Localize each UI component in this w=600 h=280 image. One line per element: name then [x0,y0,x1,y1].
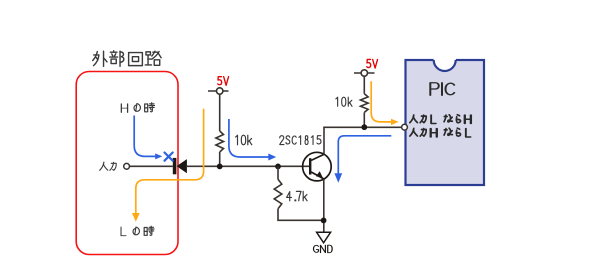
wire: 5V to resistor R3 [363,76,365,94]
ground symbol [317,232,331,243]
diode D1 anode triangle [177,159,187,173]
junction: base node / R2 [275,164,281,170]
resistor R2 4.7k [274,179,282,208]
transistor Q1 collector stroke [311,154,324,160]
enclosure box: external circuit boundary [76,72,178,255]
transistor Q1 emitter stroke [311,172,324,179]
IC U1 PIC package body [406,60,485,185]
label 10k (R1) [236,135,238,145]
flow arrow (blue, into base) [229,119,269,157]
label 外部回路 (title) [93,51,161,66]
label Hの時 [121,103,154,113]
wire: collector node to PIC pin [323,126,401,128]
label 5V (right) [367,59,371,67]
wire: emitter down to ground [323,179,325,232]
resistor R1 10k base pull-up [216,131,224,152]
flow arrow (orange, into PIC) [371,81,391,122]
label 入力 (input) [100,162,117,170]
flow arrow (blue, PIC output sense) [338,136,391,174]
wire: R3 to collector node [363,112,365,127]
wire: collector up [323,127,325,154]
label 2SC1815 (Q1 part number) [280,136,284,145]
label Lの時 [121,226,154,236]
power terminal 5V (left) [208,90,229,92]
wire: R2 to emitter rail [278,209,324,221]
flow arrow (orange, L case) [136,109,204,214]
power terminal 5V (right) [354,72,375,74]
IC U1 pin-1 notch [434,58,456,62]
label GND [313,245,318,252]
transistor Q1 2SC1815 body [303,152,332,181]
transistor Q1 base bar [309,158,311,174]
blocked mark X (blue) [165,153,173,161]
label 10k (R3) [336,97,338,106]
resistor R3 10k collector pull-up [360,94,368,113]
junction: R1 / input wire [217,164,223,170]
wire: node to resistor R2 [277,166,279,179]
junction: emitter / R2 rail [321,218,327,224]
wire: diode to transistor base [187,165,310,167]
wire: R1 to input node [219,152,221,166]
label PIC (U1) [430,83,439,95]
input terminal circle [124,163,130,169]
transistor Q1 emitter arrowhead [316,171,323,178]
junction: collector node [361,124,367,130]
wire: 5V to resistor R1 [219,94,221,131]
flow arrow (blue, H case) [134,116,156,157]
pin: PIC input [402,124,408,130]
label 5V (left) [218,77,222,85]
label 4.7k (R2) [287,192,292,201]
label 入力HならL [410,128,471,137]
wire: input to diode [130,165,173,167]
diode D1 cathode bar [173,158,177,174]
label 入力LならH [410,115,471,124]
